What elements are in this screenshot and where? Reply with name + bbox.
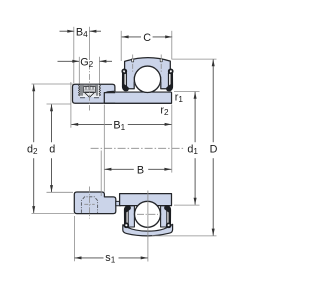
D dim line — [212, 59, 214, 142]
svg-text:r2: r2 — [160, 105, 169, 118]
B4 ext — [73, 27, 75, 84]
outer ring OR1 (upper, sectioned) — [125, 58, 171, 89]
G2 arrows (outside) — [72, 60, 79, 63]
d1 arrows — [194, 92, 197, 99]
C ext — [120, 31, 122, 61]
B1 left ext — [70, 82, 72, 128]
collar (upper, sectioned) — [73, 84, 115, 103]
G2 ext — [78, 57, 80, 84]
svg-text:d1: d1 — [187, 144, 198, 157]
cone point V — [85, 93, 95, 98]
d1 ext top/bottom — [174, 90, 200, 92]
svg-text:d2: d2 — [27, 144, 38, 157]
s1 arrows — [75, 256, 82, 259]
inner ring top edge (main, under seals) — [115, 91, 171, 93]
B left ext (sleeve end) — [103, 105, 105, 192]
outer ring OR2 lower: sphere band (banana) — [123, 224, 173, 236]
hatch fill — [80, 85, 97, 96]
G2 dim line — [58, 60, 80, 62]
screw centerline (upper) — [89, 64, 91, 111]
s1 left ext — [73, 216, 75, 261]
B4 arrows (outside) — [67, 30, 74, 33]
svg-text:s1: s1 — [105, 252, 115, 265]
collar (lower, outside view, eccentric step) — [74, 192, 116, 214]
inner ring IR1 (upper) with sleeve — [104, 93, 171, 104]
seal left (lower, mirrored) — [124, 205, 131, 227]
hex socket — [84, 86, 96, 92]
B1 arrows — [71, 123, 78, 126]
svg-text:r1: r1 — [175, 91, 184, 104]
main axis centerline — [91, 147, 185, 149]
svg-text:D: D — [210, 144, 218, 156]
hidden screw arch (lower) — [81, 197, 97, 213]
D ext top/bottom — [172, 58, 217, 60]
d arrows — [50, 104, 53, 111]
svg-text:B4: B4 — [76, 27, 88, 40]
lubrication groove notch left — [132, 55, 134, 73]
B4 dim line — [60, 30, 75, 32]
second line near sleeve — [100, 151, 102, 197]
svg-text:B: B — [137, 164, 144, 176]
inner ring IR2 (lower) — [120, 194, 172, 206]
seal right (lower, mirrored) — [164, 205, 171, 227]
ball clearance halo (upper) — [134, 65, 162, 93]
svg-text:G2: G2 — [80, 56, 93, 69]
ball crosshair (lower) — [137, 213, 158, 215]
svg-text:d: d — [49, 144, 55, 156]
lubrication groove notch right — [160, 55, 162, 73]
thread end dashes — [80, 97, 85, 99]
D arrows — [212, 59, 215, 66]
d2 ext top/bottom — [32, 83, 73, 85]
thread zigzag left — [79, 85, 80, 97]
grub screw (upper, hatched) — [79, 85, 101, 98]
outer ring OR2 lower: seal anchor columns — [128, 206, 134, 227]
d1 dim line — [194, 92, 196, 142]
svg-text:C: C — [143, 32, 151, 44]
arrowheads — [32, 30, 215, 260]
bearing cross-section drawing (SKF Y-bearing with eccentric locking collar) — [0, 0, 252, 300]
d ext top/bottom — [47, 103, 71, 105]
seal right (upper) — [166, 69, 173, 91]
screw centerline (lower) — [89, 187, 91, 219]
B arrows — [104, 168, 111, 171]
seal left (upper) — [122, 69, 129, 91]
B1 dim line — [71, 123, 112, 125]
vertical centerline (bottom) — [147, 191, 149, 262]
B / B1 right ext — [171, 105, 173, 173]
sleeve stub (lower) — [116, 201, 121, 205]
svg-text:B1: B1 — [113, 119, 125, 132]
d2 dim line — [33, 84, 35, 142]
C arrows (inside) — [122, 35, 129, 38]
ball (upper) — [134, 66, 160, 92]
s1 dim line — [75, 257, 104, 259]
d2 arrows — [32, 84, 35, 91]
d dim line — [51, 104, 53, 142]
extension lines — [32, 27, 217, 261]
thread zigzag right — [99, 85, 100, 97]
C dim line — [122, 36, 141, 38]
ball (lower) — [135, 201, 161, 227]
B dim line — [104, 168, 133, 170]
